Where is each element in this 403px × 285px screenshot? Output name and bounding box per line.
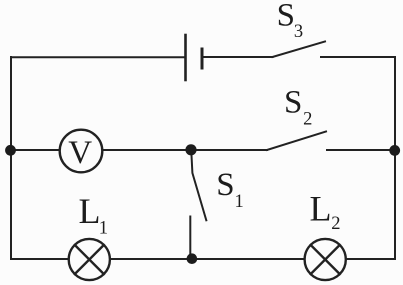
battery B1	[186, 35, 203, 80]
label S1	[216, 167, 244, 212]
svg-text:S: S	[216, 167, 234, 203]
svg-text:2: 2	[331, 214, 340, 234]
label L2	[310, 189, 341, 235]
node left-middle junction	[5, 145, 16, 156]
wire left vertical	[10, 57, 12, 259]
wire lamp L1 to lamp L2	[110, 258, 304, 260]
wire voltmeter to S2 pivot	[104, 149, 268, 151]
switch S1 blade	[191, 152, 206, 221]
wire S2 contact to right node	[327, 149, 395, 151]
wire middle-left to voltmeter	[11, 149, 59, 151]
node right-middle junction	[389, 145, 400, 156]
wire bottom-left to lamp L1	[11, 258, 68, 260]
node A top of S1	[185, 144, 196, 155]
wire lamp L2 to bottom-right corner	[346, 258, 395, 260]
wire right vertical lower	[394, 150, 396, 259]
svg-text:3: 3	[294, 22, 303, 42]
label S3	[277, 0, 304, 42]
switch S2 blade	[267, 132, 326, 151]
svg-text:S: S	[277, 0, 295, 34]
label S2	[284, 85, 312, 130]
lamp L1	[69, 239, 110, 280]
wire right vertical upper	[394, 57, 396, 150]
svg-text:L: L	[79, 191, 101, 231]
svg-text:S: S	[284, 85, 302, 121]
svg-text:V: V	[68, 135, 92, 171]
wire battery to S3	[204, 56, 273, 58]
label L1	[79, 191, 108, 238]
svg-text:L: L	[310, 189, 332, 229]
svg-text:1: 1	[235, 192, 244, 212]
voltmeter V	[60, 130, 103, 173]
lamp L2	[305, 239, 346, 280]
wire S3 contact to top-right corner	[321, 56, 395, 58]
wire top-left horizontal	[11, 56, 184, 58]
node bottom of S1	[187, 253, 198, 264]
switch S3 blade	[273, 42, 326, 58]
svg-text:2: 2	[303, 110, 312, 130]
switch S1 lower contact post	[189, 217, 191, 258]
svg-text:1: 1	[99, 218, 108, 238]
